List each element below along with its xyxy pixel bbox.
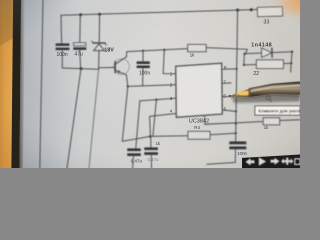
wire combo left vertical	[243, 54, 246, 65]
wire W_bot2 pin IC bottom	[205, 116, 264, 124]
wire R1 to combo corner	[206, 48, 247, 54]
node junction caps bottom	[80, 67, 83, 70]
IC U1 box UC3842	[176, 63, 222, 117]
resistor R2 22 box	[256, 60, 283, 69]
wire pin4 stub	[150, 114, 176, 117]
wire base tap to Q1	[99, 66, 115, 68]
wire C1 bottom lead	[62, 50, 98, 69]
wood top darkening	[0, 0, 14, 46]
wire bottom rail W_bot1	[122, 136, 187, 142]
node junction bottom rail caps	[149, 135, 152, 138]
node junction VR W_bot2	[235, 122, 237, 124]
wire zener top lead	[98, 14, 100, 42]
capacitor C3 100n	[137, 61, 150, 68]
wire combo output down under pen	[290, 63, 292, 72]
video control bar	[242, 155, 300, 169]
wire pin1 drop	[163, 50, 176, 74]
wire top rail	[61, 10, 251, 16]
wire pin4 drop to bottom rail	[149, 116, 152, 136]
node junction pin8 VR	[236, 68, 238, 70]
node junction rail above zener	[98, 13, 101, 16]
wire combo left to R2	[244, 64, 257, 66]
wood horizontal tone	[0, 0, 1, 1]
wire C6 bottom lead	[150, 155, 152, 168]
wire pin7 stub	[222, 82, 231, 84]
node junction combo right bottom	[290, 62, 292, 64]
resistor R4 box	[188, 131, 210, 139]
pen seam	[248, 88, 251, 97]
wire W2 to pin2	[128, 85, 176, 87]
node junction combo right top	[291, 51, 293, 53]
wire zener long vertical down	[89, 69, 99, 168]
wire emitter long vertical down to bottom rail	[122, 86, 128, 141]
wire C5 bottom lead	[132, 156, 135, 168]
resistor R1 1k box	[188, 45, 206, 52]
resistor R3 33 box	[257, 7, 282, 17]
wire C6 top lead	[150, 136, 152, 147]
capacitor C6 0.47u	[144, 147, 158, 155]
pen cone tip	[229, 89, 249, 97]
node junction emitter pin2	[127, 85, 129, 87]
wire diode line D2	[244, 52, 292, 54]
wire W3 to pin3	[140, 98, 176, 101]
wire combo right vertical	[290, 52, 293, 64]
pen cone metal section	[229, 93, 237, 98]
wire C3 top lead	[142, 51, 144, 62]
paper background	[0, 0, 300, 168]
node junction combo left bottom	[243, 64, 245, 66]
wire W1 collector rail to R1	[127, 49, 188, 52]
pen cone gold highlight	[238, 91, 250, 95]
node junction R4 wire VR	[235, 132, 237, 134]
wire C2 top lead	[79, 15, 82, 43]
wire left border vertical	[40, 0, 43, 168]
resistor R5 box	[263, 118, 279, 125]
pen body top dark edge	[249, 82, 300, 89]
tooltip label box	[255, 106, 302, 115]
wire R2 to right node	[283, 62, 291, 64]
wire R5 to right edge	[280, 119, 300, 122]
wire pin8 stub	[222, 68, 237, 70]
diode D2 1n4148	[262, 48, 272, 57]
dark bezel edge	[11, 0, 21, 168]
node junction rail VR top	[236, 9, 239, 12]
wire Q1 collector up	[125, 52, 127, 57]
node junction rail above C2	[79, 13, 82, 16]
node junction W3	[155, 99, 157, 101]
icon play	[259, 157, 266, 166]
top-right warm glow	[0, 0, 1, 1]
icon arrow left	[246, 158, 255, 165]
pen body highlight stripe	[250, 85, 300, 91]
wire rail left end drop to C1	[60, 15, 63, 43]
node junction pin5 VR	[235, 110, 237, 112]
wire R4 to VR vertical	[210, 133, 236, 135]
wire C2 bottom lead	[79, 50, 82, 69]
pen shadow	[232, 89, 300, 104]
icon move cross	[281, 158, 293, 165]
diode D1 zener 18V	[93, 42, 105, 44]
wire C4 bottom lead to ground rail	[234, 149, 236, 162]
wire ground rail	[207, 163, 235, 165]
capacitor C1 100n	[56, 43, 70, 50]
icon frame partial	[295, 159, 300, 165]
transistor Q1	[114, 59, 130, 75]
node junction rail second dot	[250, 8, 253, 11]
photo haze	[0, 0, 300, 168]
icon arrow right	[271, 158, 280, 165]
wire C3 bottom lead	[142, 68, 144, 86]
wire junction W3 down to bottom rail	[153, 100, 157, 136]
node junction combo left top	[243, 53, 245, 55]
pen body	[249, 82, 300, 97]
wire pin6 stub	[222, 95, 243, 98]
wire W3 corner down to C5	[136, 101, 140, 148]
capacitor C5 0.47u	[127, 148, 141, 156]
wire zener bottom lead	[98, 51, 100, 70]
pen contact shadow line	[231, 95, 300, 98]
wire long vertical from C1 group down	[67, 69, 81, 168]
wire pin5 stub	[222, 110, 236, 112]
mouse cursor magnifier	[266, 96, 272, 102]
wire VR long vertical rail to C4	[236, 10, 238, 141]
pen tip ball	[229, 95, 231, 97]
capacitor C2 47u polarized	[74, 43, 86, 46]
node junction W1 above C3	[142, 50, 144, 52]
capacitor C4 100n	[229, 141, 246, 149]
wood desk strip left	[0, 0, 14, 168]
node junction W1 above pin1 drop	[163, 49, 165, 51]
wire rail right segment into R 33	[251, 8, 260, 10]
labels group	[57, 19, 273, 163]
wire Q1 emitter down	[126, 75, 127, 87]
